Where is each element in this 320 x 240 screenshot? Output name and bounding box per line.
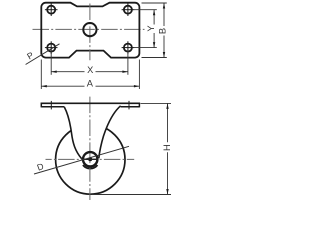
svg-text:B: B <box>157 28 167 34</box>
H dimension <box>92 103 172 194</box>
svg-text:A: A <box>87 79 94 89</box>
top view horizontal centerline <box>33 28 145 30</box>
P leader <box>26 44 60 65</box>
bolt hole bottom-left <box>45 41 58 54</box>
plate outline (top view) <box>41 3 139 58</box>
D leader <box>34 146 129 174</box>
center pivot circle <box>83 23 96 36</box>
wheel <box>56 125 125 194</box>
side plate <box>41 101 139 110</box>
fork left edge <box>64 107 82 159</box>
B dimension <box>142 3 167 58</box>
bolt hole bottom-right <box>122 41 135 54</box>
svg-text:Y: Y <box>146 25 156 31</box>
hub horizontal centerline <box>46 158 135 160</box>
fork (white body over wheel) <box>62 103 122 169</box>
fork axle wrap arc <box>83 165 98 168</box>
hub axle dot <box>88 157 92 161</box>
svg-text:H: H <box>162 144 172 151</box>
bolt hole top-right <box>122 3 135 16</box>
svg-text:X: X <box>87 65 93 75</box>
fork right edge <box>99 106 121 159</box>
hub ring <box>83 152 97 166</box>
hub axle line <box>83 158 99 160</box>
vertical centerline (upper part) <box>89 4 91 61</box>
vertical centerline (lower part) <box>89 95 91 200</box>
Y dimension <box>134 10 157 48</box>
A dimension <box>41 60 139 90</box>
bolt hole top-left <box>45 3 58 16</box>
X dimension <box>51 50 128 75</box>
